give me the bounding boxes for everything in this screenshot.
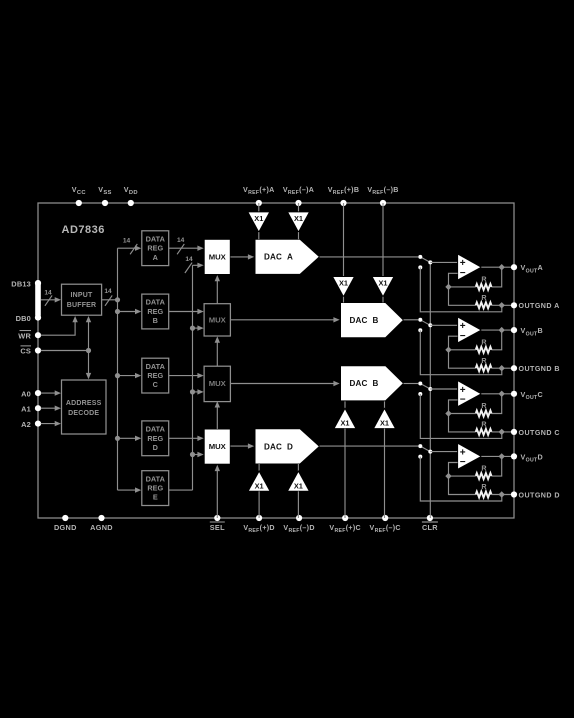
svg-text:CLR: CLR [422, 523, 438, 532]
address decoder U2 [62, 380, 107, 434]
svg-text:X1: X1 [340, 419, 349, 428]
svg-text:OUTGND C: OUTGND C [519, 429, 560, 437]
DAC B [341, 303, 404, 338]
wire MUX D to DAC D [230, 445, 250, 447]
svg-text:DATA: DATA [146, 234, 166, 243]
svg-text:MUX: MUX [209, 442, 227, 451]
svg-text:−: − [460, 268, 466, 279]
bus width marker 14 (reg E rail to MUX A) [185, 263, 192, 273]
pin VREF(+)A [256, 200, 262, 206]
pin VOUT A [511, 264, 517, 270]
wire summing junction down to R2 [449, 350, 476, 368]
svg-text:R: R [481, 293, 487, 302]
data bus DB13-DB0 [35, 280, 41, 318]
wire R1 to summing junction [449, 349, 476, 351]
pin VOUT C [511, 391, 517, 397]
data register D [142, 421, 169, 456]
svg-text:AGND: AGND [90, 523, 113, 532]
wire reg E rail to MUX C [193, 391, 201, 393]
svg-text:X1: X1 [380, 419, 389, 428]
wire R1 to summing junction [449, 475, 476, 477]
svg-text:R: R [481, 356, 487, 365]
svg-text:BUFFER: BUFFER [67, 302, 97, 309]
junction feedback node B [445, 347, 451, 353]
wire data reg D to MUX D [169, 437, 200, 439]
wire switch to op amp A + input [430, 261, 457, 263]
pin VDD [128, 200, 134, 206]
svg-text:X1: X1 [378, 279, 387, 288]
junction op amp A output node [499, 264, 505, 270]
wire DAC C bottom to buffer [344, 401, 346, 408]
wire summing junction down to R2 [449, 287, 476, 305]
svg-text:14: 14 [123, 238, 131, 245]
wire R2 to OUTGND pin [492, 367, 512, 369]
svg-text:DB0: DB0 [16, 314, 31, 323]
svg-text:X1: X1 [294, 214, 303, 223]
pin CS [35, 347, 41, 353]
wire DAC A output to switch [320, 256, 419, 258]
svg-text:WR: WR [18, 331, 31, 340]
svg-text:REG: REG [147, 484, 163, 493]
svg-text:R: R [481, 482, 487, 491]
output switch SD [420, 446, 430, 452]
reference buffer X1 (VREF-C) [374, 408, 396, 428]
junction OUTGND node C [499, 429, 505, 435]
gain resistor R (channel D) [476, 492, 492, 498]
wire op amp C output to VOUT pin [481, 393, 511, 395]
wire data reg A to MUX A [169, 247, 200, 249]
wire SEL to MUX select inputs [216, 468, 218, 518]
input buffer U1 [62, 284, 102, 315]
pin OUTGND D [511, 491, 517, 497]
pin A0 [35, 390, 41, 396]
op-amp AD [458, 443, 482, 469]
svg-text:MUX: MUX [209, 379, 227, 388]
wire X1 down to VREF(+)D pin [258, 491, 260, 518]
wire summing junction to op amp A - input [449, 273, 458, 287]
wire VREF(+)B down to buffer [343, 203, 345, 277]
gain resistor R (channel A) [476, 302, 492, 308]
wire DB bus to input buffer [41, 299, 58, 301]
junction feedback node C [445, 410, 451, 416]
wire switch alternate throw to OUTGND node B [420, 330, 502, 374]
gain resistor R (channel C) [476, 429, 492, 435]
wire X1 down to VREF(-)C pin [384, 429, 386, 518]
pin SEL [214, 515, 220, 521]
svg-text:DAC B: DAC B [349, 316, 378, 325]
wire R2 to OUTGND pin [492, 304, 512, 306]
svg-text:DATA: DATA [146, 474, 166, 483]
wire summing junction to op amp B - input [449, 336, 458, 350]
svg-text:R: R [481, 420, 487, 429]
svg-text:DATA: DATA [146, 425, 166, 434]
wire A0 to address decode [41, 392, 58, 394]
svg-text:D: D [153, 443, 158, 452]
data register A [142, 231, 169, 266]
wire bus to data reg C [118, 375, 138, 377]
wire feedback from output node down to R1 [492, 267, 502, 287]
pin A1 [35, 405, 41, 411]
svg-text:R: R [481, 401, 487, 410]
junction bus / buffer output [115, 297, 120, 302]
reference buffer X1 (VREF+A) [248, 212, 270, 232]
wire summing junction down to R2 [449, 476, 476, 494]
svg-text:B: B [153, 316, 158, 325]
wire WR to input buffer [41, 320, 75, 336]
svg-text:14: 14 [44, 289, 52, 296]
feedback resistor R (channel C) [476, 411, 492, 417]
wire X1 to DAC B top [382, 297, 384, 303]
svg-text:R: R [481, 464, 487, 473]
pin VSS [102, 200, 108, 206]
reference buffer X1 (VREF-A) [288, 212, 310, 232]
pin OUTGND A [511, 302, 517, 308]
svg-text:X1: X1 [255, 481, 264, 490]
junction CS node [86, 348, 91, 353]
pin AGND [98, 515, 104, 521]
op-amp AC [458, 381, 482, 407]
svg-text:DATA: DATA [146, 298, 166, 307]
svg-text:−: − [460, 395, 466, 406]
chip boundary AD7836 [38, 203, 514, 518]
reference buffer X1 (VREF+C) [334, 408, 356, 428]
svg-text:14: 14 [185, 256, 193, 263]
reference buffer X1 (VREF+B) [333, 277, 355, 297]
svg-text:X1: X1 [294, 481, 303, 490]
svg-text:DAC D: DAC D [264, 442, 293, 451]
wire data reg C to MUX C [169, 375, 200, 377]
wire feedback from output node down to R1 [492, 456, 502, 476]
svg-text:14: 14 [104, 288, 112, 295]
pin OUTGND B [511, 365, 517, 371]
svg-text:−: − [460, 457, 466, 468]
gain resistor R (channel B) [476, 365, 492, 371]
svg-text:MUX: MUX [209, 253, 227, 262]
pin CLR [427, 515, 433, 521]
wire op amp B output to VOUT pin [481, 329, 511, 331]
pin DB0 [35, 315, 41, 321]
svg-text:X1: X1 [339, 279, 348, 288]
wire VREF(-)B down to buffer [382, 203, 384, 277]
reference buffer X1 (VREF+D) [248, 471, 270, 491]
wire summing junction to op amp C - input [449, 400, 458, 414]
wire bus to data reg E [118, 489, 138, 491]
bus width marker 14 (reg A to MUX A) [177, 244, 184, 254]
svg-text:ADDRESS: ADDRESS [66, 400, 102, 407]
svg-text:C: C [153, 380, 159, 389]
wire feedback from output node down to R1 [492, 330, 502, 350]
svg-text:−: − [460, 331, 466, 342]
svg-text:REG: REG [147, 307, 163, 316]
pin A2 [35, 421, 41, 427]
svg-text:DAC A: DAC A [264, 253, 293, 262]
svg-text:AD7836: AD7836 [62, 224, 105, 236]
svg-text:DGND: DGND [54, 523, 77, 532]
pin VOUT D [511, 453, 517, 459]
wire X1 down to VREF(-)D pin [297, 491, 299, 518]
wire switch alternate throw to OUTGND node C [420, 394, 502, 438]
wire bus to data reg B [118, 311, 138, 313]
pin VREF(-)C [382, 515, 388, 521]
op-amp AB [458, 317, 482, 343]
svg-text:DB13: DB13 [11, 279, 31, 288]
wire R1 to summing junction [449, 413, 476, 415]
junction feedback node D [445, 473, 451, 479]
pin WR [35, 332, 41, 338]
wire data reg E output rail [169, 489, 193, 491]
junction OUTGND node D [499, 491, 505, 497]
pin DGND [62, 515, 68, 521]
feedback resistor R (channel D) [476, 473, 492, 479]
wire DAC C bottom to buffer (minus) [384, 401, 386, 408]
internal 14-bit bus vertical [117, 248, 119, 490]
junction op amp D output node [499, 453, 505, 459]
wire summing junction to op amp D - input [449, 463, 458, 477]
svg-text:A1: A1 [21, 404, 31, 413]
wire switch to op amp B + input [430, 324, 457, 326]
bus width marker 14 (input) [45, 295, 52, 305]
wire X1 to DAC A top [258, 232, 260, 239]
wire op amp D output to VOUT pin [481, 455, 511, 457]
svg-text:E: E [153, 493, 158, 502]
wire DAC C output to switch [404, 383, 419, 385]
wire reg E rail to MUX B [193, 327, 201, 329]
pin VREF(+)D [256, 515, 262, 521]
bus width marker 14 (reg A input) [130, 244, 137, 254]
junction OUTGND node A [499, 302, 505, 308]
wire reg E rail to MUX D [193, 454, 201, 456]
pin VREF(-)B [380, 200, 386, 206]
wire R1 to summing junction [449, 286, 476, 288]
svg-text:REG: REG [147, 244, 163, 253]
junction reg E rail [190, 326, 195, 331]
pin VREF(-)D [296, 515, 302, 521]
reference buffer X1 (VREF-B) [372, 277, 394, 297]
DAC A [255, 239, 320, 274]
junction reg E rail [190, 452, 195, 457]
svg-text:SEL: SEL [210, 523, 225, 532]
wire switch alternate throw to OUTGND node D [420, 457, 502, 501]
wire reg E rail to MUX A [193, 264, 201, 266]
pin VCC [76, 200, 82, 206]
svg-text:X1: X1 [254, 214, 263, 223]
wire summing junction down to R2 [449, 414, 476, 432]
bus width marker 14 (buffer out) [105, 295, 112, 305]
wire A2 to address decode [41, 423, 58, 425]
junction bus node reg B [115, 309, 120, 314]
multiplexer MUX A [204, 239, 230, 274]
wire VREF(-)A to buffer [298, 203, 300, 213]
wire CLR control rail [429, 262, 431, 518]
data register E [142, 471, 169, 506]
svg-text:14: 14 [177, 237, 185, 244]
output switch SC [420, 384, 430, 390]
svg-text:INPUT: INPUT [71, 292, 94, 299]
svg-text:DECODE: DECODE [68, 410, 99, 417]
wire DAC D bottom to buffer [258, 464, 260, 472]
svg-text:DATA: DATA [146, 362, 166, 371]
pin VREF(+)C [342, 515, 348, 521]
svg-text:A2: A2 [21, 420, 31, 429]
pin OUTGND C [511, 429, 517, 435]
wire switch to op amp C + input [430, 388, 457, 390]
wire A1 to address decode [41, 407, 58, 409]
junction bus node reg D [115, 436, 120, 441]
junction feedback node A [445, 284, 451, 290]
output switch SB [420, 320, 430, 326]
svg-text:CS: CS [20, 347, 31, 356]
wire input buffer output to internal bus [102, 299, 118, 301]
svg-text:A0: A0 [21, 389, 31, 398]
multiplexer MUX C [204, 366, 230, 401]
wire CS to input buffer and address decode [41, 350, 89, 352]
pin DB13 [35, 280, 41, 286]
junction bus node reg C [115, 373, 120, 378]
DAC C [341, 366, 404, 401]
junction OUTGND node B [499, 365, 505, 371]
wire X1 to DAC A top [298, 232, 300, 239]
wire op amp A output to VOUT pin [481, 266, 511, 268]
svg-text:REG: REG [147, 434, 163, 443]
wire MUX B to DAC B [230, 319, 335, 321]
svg-text:R: R [481, 337, 487, 346]
junction op amp B output node [499, 327, 505, 333]
wire switch alternate throw to OUTGND node A [420, 267, 502, 311]
wire R2 to OUTGND pin [492, 494, 512, 496]
multiplexer MUX D [204, 429, 230, 464]
pin VREF(-)A [295, 200, 301, 206]
multiplexer MUX B [204, 304, 230, 336]
feedback resistor R (channel B) [476, 347, 492, 353]
wire X1 down to VREF(+)C pin [344, 429, 346, 518]
svg-text:OUTGND A: OUTGND A [519, 302, 560, 310]
svg-text:REG: REG [147, 371, 163, 380]
wire DAC D output to switch [320, 445, 419, 447]
wire R2 to OUTGND pin [492, 431, 512, 433]
wire X1 to DAC B top [343, 297, 345, 303]
wire bus to data reg A [118, 247, 138, 249]
wire VREF(+)A to buffer [258, 203, 260, 213]
DAC D [255, 429, 320, 464]
wire MUX C to DAC C [230, 383, 335, 385]
op-amp AA [458, 254, 482, 280]
wire switch to op amp D + input [430, 451, 457, 453]
svg-text:DAC B: DAC B [349, 379, 378, 388]
data register C [142, 358, 169, 393]
junction op amp C output node [499, 391, 505, 397]
svg-text:A: A [153, 253, 159, 262]
svg-text:OUTGND D: OUTGND D [519, 491, 560, 499]
data register B [142, 294, 169, 329]
wire DAC D bottom to buffer (minus) [297, 464, 299, 472]
pin VOUT B [511, 327, 517, 333]
wire bus to data reg D [118, 437, 138, 439]
feedback resistor R (channel A) [476, 284, 492, 290]
wire MUX A to DAC A [230, 256, 250, 258]
junction reg E rail [190, 389, 195, 394]
output switch SA [420, 257, 430, 263]
svg-text:R: R [481, 275, 487, 284]
wire DAC B output to switch [404, 319, 419, 321]
svg-text:MUX: MUX [209, 316, 227, 325]
wire data reg B to MUX B [169, 311, 200, 313]
reference buffer X1 (VREF-D) [287, 471, 309, 491]
wire feedback from output node down to R1 [492, 394, 502, 414]
pin VREF(+)B [340, 200, 346, 206]
svg-text:OUTGND B: OUTGND B [519, 365, 560, 373]
